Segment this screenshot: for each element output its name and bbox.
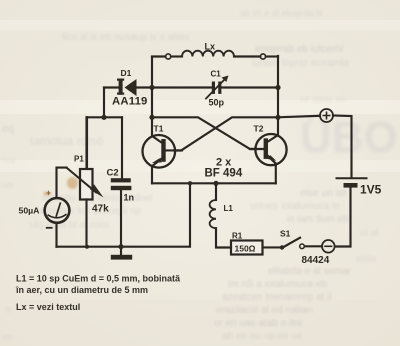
svg-text:L1: L1	[224, 204, 234, 213]
svg-text:etse un iat: etse un iat	[300, 188, 346, 199]
svg-text:Lx: Lx	[205, 42, 216, 52]
svg-text:ulq eliila bl al romi: ulq eliila bl al romi	[30, 220, 109, 231]
svg-text:AA119: AA119	[112, 96, 148, 108]
svg-text:tamotua ròtsò: tamotua ròtsò	[30, 134, 104, 148]
svg-text:47k: 47k	[92, 204, 109, 215]
svg-text:1V5: 1V5	[360, 183, 382, 197]
svg-text:L1 = 10 sp CuEm d = 0,5 mm, bo: L1 = 10 sp CuEm d = 0,5 mm, bobinată	[16, 274, 181, 284]
svg-text:is iam tlum eb: is iam tlum eb	[287, 214, 349, 225]
svg-text:eliila: eliila	[356, 254, 376, 265]
svg-text:rm: rm	[2, 332, 13, 342]
svg-text:eliiatela e al semar: eliiatela e al semar	[268, 266, 352, 277]
svg-text:urtnep iotalumuca le: urtnep iotalumuca le	[250, 201, 340, 212]
svg-text:eisolten le i acuoq il op: eisolten le i acuoq il op	[40, 206, 142, 217]
svg-text:P1: P1	[74, 155, 84, 164]
svg-text:lico al ic eb nusaup iv s almu: lico al ic eb nusaup iv s almu	[62, 32, 189, 43]
svg-text:C1: C1	[211, 70, 222, 79]
svg-text:+: +	[46, 189, 51, 198]
svg-text:150Ω: 150Ω	[235, 244, 256, 254]
svg-text:eq: eq	[2, 123, 14, 135]
svg-text:erazilacol al ed rolitan: erazilacol al ed rolitan	[216, 305, 313, 316]
svg-text:R1: R1	[232, 232, 243, 241]
svg-text:ab eb no op es ua: ab eb no op es ua	[222, 331, 303, 342]
svg-text:azeatcen tnenamrep at il: azeatcen tnenamrep at il	[222, 292, 332, 303]
svg-text:el al: el al	[360, 228, 378, 239]
svg-text:ab im e ol eiuqeda ls: ab im e ol eiuqeda ls	[240, 8, 323, 18]
svg-text:Lx = vezi textul: Lx = vezi textul	[16, 302, 80, 312]
svg-text:nor: nor	[1, 180, 14, 190]
svg-text:C2: C2	[107, 168, 119, 179]
svg-text:84424: 84424	[302, 255, 330, 266]
svg-text:nca: nca	[1, 155, 16, 165]
svg-text:T2: T2	[254, 124, 264, 134]
svg-text:UBO: UBO	[300, 113, 398, 162]
svg-text:50p: 50p	[209, 98, 225, 108]
svg-text:eniqerab eb iutceriV: eniqerab eb iutceriV	[255, 44, 344, 55]
svg-text:1n: 1n	[124, 193, 135, 203]
svg-text:50µA: 50µA	[19, 206, 41, 216]
svg-text:iul opniz eb: iul opniz eb	[300, 94, 346, 104]
svg-text:is: is	[5, 304, 12, 314]
svg-text:BF 494: BF 494	[205, 168, 243, 180]
svg-text:D1: D1	[121, 68, 132, 78]
svg-text:or en uas atab o itni: or en uas atab o itni	[214, 318, 302, 329]
svg-text:lunam lopniz eciramla: lunam lopniz eciramla	[252, 58, 349, 69]
svg-text:im nS a iotalumuca eb: im nS a iotalumuca eb	[228, 279, 327, 290]
svg-text:S1: S1	[280, 229, 291, 239]
svg-text:în aer, cu un diametru de 5 m: în aer, cu un diametru de 5 mm	[15, 285, 148, 295]
svg-text:T1: T1	[154, 124, 164, 134]
